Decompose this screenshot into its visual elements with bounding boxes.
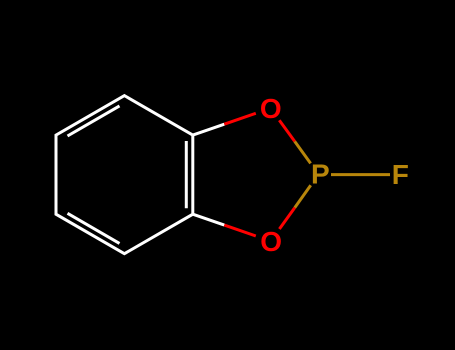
svg-text:P: P [311, 159, 330, 190]
svg-text:O: O [260, 226, 282, 257]
svg-text:O: O [260, 93, 282, 124]
svg-text:F: F [392, 159, 409, 190]
